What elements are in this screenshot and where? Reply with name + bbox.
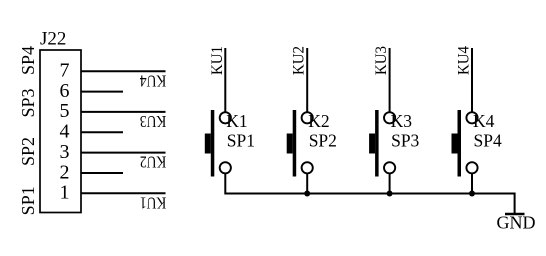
wire ground rail (225, 194, 514, 214)
switch SP1 button (205, 134, 211, 154)
wire pin 2 stub (81, 172, 123, 174)
switch SP3 group (369, 46, 419, 197)
svg-text:GND: GND (497, 213, 536, 233)
wire pin 5 net KU3 (81, 111, 166, 113)
svg-text:KU1: KU1 (209, 46, 226, 75)
switch SP2 top terminal (302, 112, 313, 123)
svg-text:J22: J22 (40, 29, 66, 50)
wire pin 6 stub (81, 91, 123, 93)
wire switch SP4 bottom to rail (471, 173, 473, 193)
wire switch SP1 bottom to rail (224, 173, 226, 194)
switch SP4 top terminal (466, 112, 477, 123)
svg-text:SP4: SP4 (18, 46, 38, 75)
svg-text:K3: K3 (391, 111, 413, 131)
ground symbol bar (505, 213, 525, 215)
svg-text:6: 6 (60, 80, 70, 102)
switch SP1 top terminal (220, 112, 231, 123)
svg-text:SP2: SP2 (309, 130, 337, 150)
switch SP4 actuator bar (458, 110, 462, 177)
svg-text:KU3: KU3 (140, 112, 167, 131)
switch SP2 group (287, 46, 337, 197)
svg-text:KU3: KU3 (373, 46, 390, 75)
wire pin 3 net KU2 (81, 152, 166, 154)
svg-text:KU4: KU4 (456, 46, 473, 75)
wire pin 7 net KU4 (81, 70, 166, 72)
svg-text:KU1: KU1 (140, 193, 167, 212)
wire KU2 to switch SP2 top (306, 48, 308, 113)
switch SP3 top terminal (384, 112, 395, 123)
switch SP4 button (452, 134, 458, 154)
wire KU3 to switch SP3 top (389, 48, 391, 113)
svg-text:SP3: SP3 (18, 88, 38, 117)
wire KU4 to switch SP4 top (471, 48, 473, 113)
svg-text:4: 4 (60, 121, 70, 143)
switch SP2 bottom terminal (302, 162, 313, 173)
junction switch SP2 / rail (304, 191, 310, 197)
junction switch SP3 / rail (387, 191, 393, 197)
svg-text:SP4: SP4 (474, 130, 502, 150)
switch SP2 actuator bar (293, 110, 297, 177)
svg-text:5: 5 (60, 100, 70, 122)
svg-text:KU4: KU4 (139, 71, 166, 90)
wire pin 4 stub (81, 131, 123, 133)
svg-text:SP1: SP1 (18, 186, 38, 215)
svg-text:1: 1 (60, 182, 70, 204)
svg-text:3: 3 (60, 141, 70, 163)
switch SP1 group (205, 46, 255, 195)
svg-text:KU2: KU2 (140, 153, 167, 172)
svg-text:SP2: SP2 (18, 137, 38, 166)
svg-text:SP3: SP3 (391, 130, 419, 150)
svg-text:KU2: KU2 (291, 46, 308, 75)
switch SP2 button (287, 134, 293, 154)
switch SP3 button (369, 134, 375, 154)
wire switch SP3 bottom to rail (389, 173, 391, 193)
connector J22 body (40, 50, 81, 213)
svg-text:SP1: SP1 (227, 130, 255, 150)
wire pin 1 net KU1 (81, 192, 166, 194)
svg-text:7: 7 (60, 60, 70, 82)
switch SP3 bottom terminal (384, 162, 395, 173)
svg-text:K1: K1 (226, 111, 247, 131)
switch SP3 actuator bar (375, 110, 379, 177)
svg-text:K4: K4 (473, 111, 495, 131)
switch SP4 group (452, 46, 502, 197)
switch SP4 bottom terminal (466, 162, 477, 173)
switch SP1 actuator bar (211, 110, 215, 177)
switch SP1 bottom terminal (220, 162, 231, 173)
svg-text:2: 2 (60, 161, 70, 183)
junction switch SP4 / rail (469, 191, 475, 197)
wire KU1 to switch SP1 top (224, 48, 226, 113)
svg-text:K2: K2 (308, 111, 329, 131)
wire switch SP2 bottom to rail (306, 173, 308, 193)
